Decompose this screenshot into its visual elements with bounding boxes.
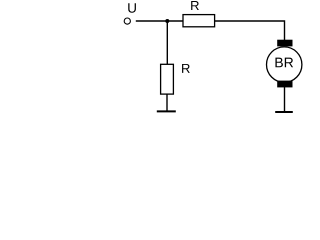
junction node A [165,19,169,23]
motor BR bottom brush [277,81,292,88]
wire from R2 to ground [166,94,168,111]
wire from motor to ground [284,87,286,111]
motor BR top brush [277,40,292,47]
resistor R1 (horizontal) body [183,15,215,27]
ground below motor [275,111,293,113]
motor BR label [275,58,293,68]
motor BR body circle [267,47,302,82]
wire from node A down to R2 [166,21,168,65]
resistor R2 (vertical) body [161,64,174,94]
terminal U (open circle) [124,18,130,24]
wire from terminal U to node A [136,20,184,22]
resistor R1 value label R [191,1,199,10]
node U (input terminal name) [128,3,136,12]
wire from R1 to motor branch corner [215,21,285,41]
resistor R2 value label R [182,64,190,73]
ground below R2 [157,110,176,112]
